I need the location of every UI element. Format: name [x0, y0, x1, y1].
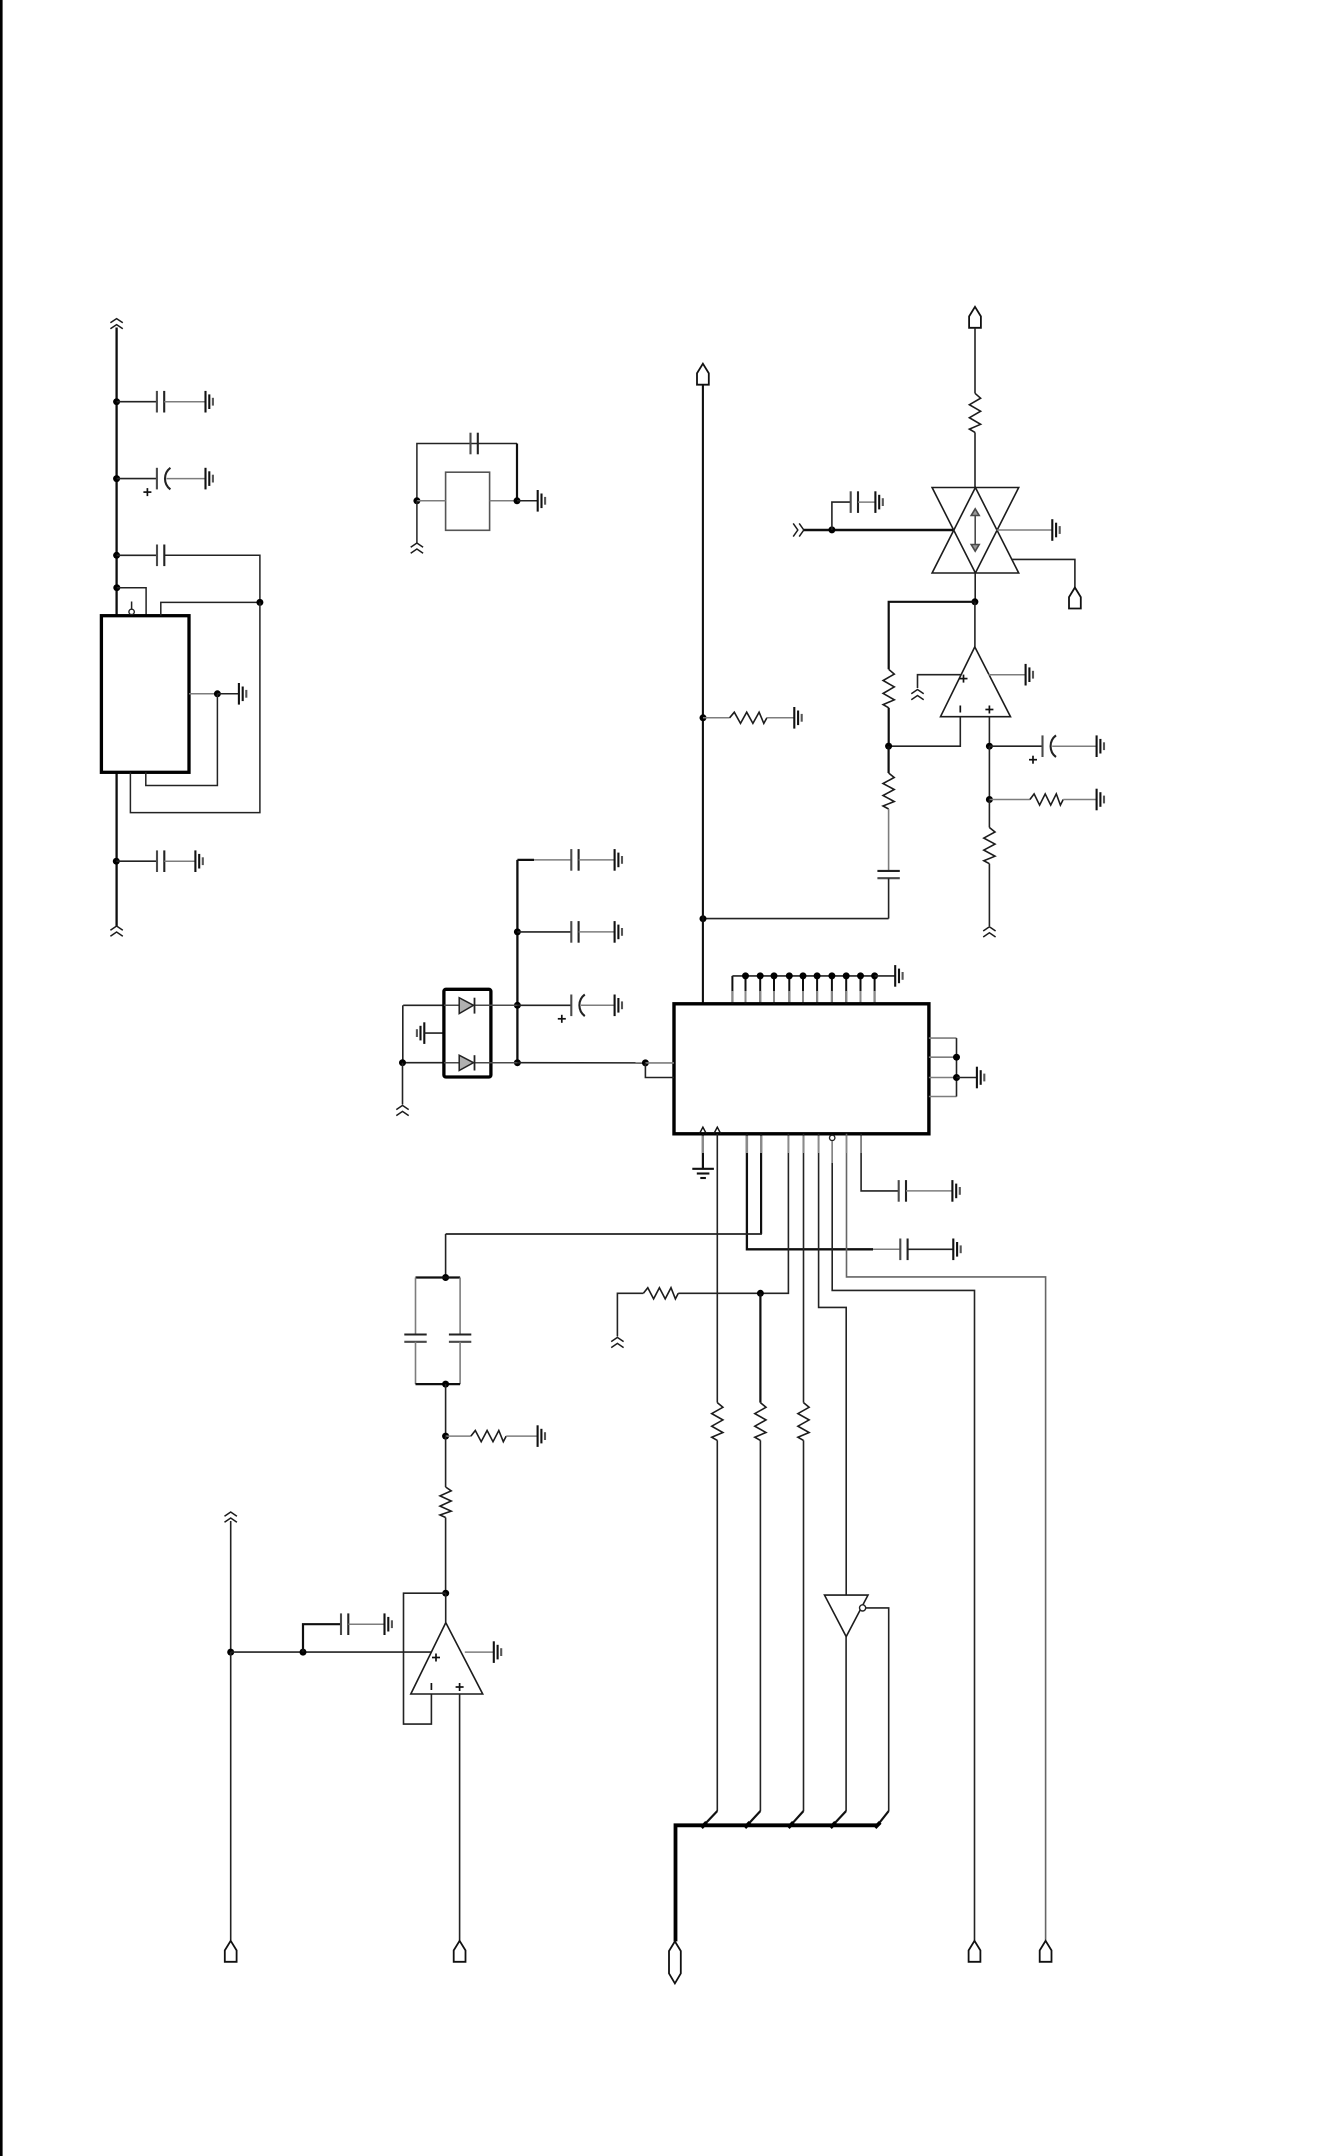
crystal X1: [446, 472, 490, 530]
off-page connector P9: [454, 1941, 466, 1962]
node L: [442, 1274, 449, 1281]
node I1: [514, 928, 521, 935]
off-page connector P1 (top): [969, 307, 981, 328]
label U3 inverting input: [430, 1683, 432, 1690]
capacitor C15: [341, 1613, 348, 1635]
wire node B loop to U1 bottom pin: [146, 694, 218, 786]
wire node R to C15: [303, 1624, 341, 1652]
node C: [971, 598, 978, 605]
ground (U4 top bus): [895, 965, 902, 987]
wire C2 to ground: [167, 478, 206, 480]
wire bus top corner: [517, 859, 534, 861]
suppressor RV1 (bidirectional TVS): [932, 488, 1019, 574]
wire U3 + input to off-page P9: [459, 1694, 461, 1941]
wire chevron to RV1: [804, 529, 953, 532]
wire C13 bottom rail: [416, 1383, 461, 1385]
wire node N to R11: [446, 1435, 471, 1437]
wire R4 to power arrow: [988, 864, 990, 926]
wire U4 pin to off-page P7: [847, 1134, 1046, 1941]
wire VCC rail vertical (lower): [115, 772, 117, 926]
wire U4 pin left B: [645, 1063, 674, 1078]
capacitor C1: [157, 391, 164, 413]
bus member joint: [704, 1811, 718, 1825]
ground (U4 right pins): [977, 1067, 984, 1089]
wire X1 left to power arrow: [416, 501, 418, 543]
wire to D1 anode (top): [403, 1004, 444, 1006]
diode D1a: [444, 998, 518, 1014]
resistor R8: [643, 1288, 678, 1299]
resistor R2: [883, 669, 894, 708]
dual diode D1 package: [444, 989, 491, 1077]
op-amp U2: [941, 647, 1011, 717]
U4 top pin bus to ground: [731, 976, 733, 1004]
wire down to C13 pair: [445, 1234, 447, 1278]
wire U1 output pin: [189, 693, 217, 695]
wire VCC rail vertical (upper): [115, 328, 117, 616]
wire U2 - input to node D: [889, 717, 961, 747]
ground (U4 GND pin): [692, 1169, 714, 1178]
node VCC/C4: [113, 858, 120, 865]
ground (U1): [239, 683, 246, 705]
resistor R6: [730, 712, 767, 723]
U4 clock input marks: [699, 1127, 720, 1134]
ground (C12): [953, 1239, 960, 1261]
wire mid bus vertical: [516, 860, 518, 1063]
capacitor C9: [571, 849, 578, 871]
wire to C1: [117, 401, 157, 403]
wire node A loop to U1 bottom pin: [130, 602, 260, 812]
resistor R7: [712, 1403, 723, 1441]
capacitor C10: [571, 921, 578, 943]
capacitor C11 (polarized): [571, 995, 585, 1017]
wire RV1 bottom to node C: [974, 573, 976, 602]
resistor R12: [440, 1487, 451, 1518]
arrow inside RV1: [971, 509, 979, 551]
resistor R5: [883, 773, 894, 809]
wire node E to C7: [989, 745, 1042, 747]
wire node E down: [988, 746, 990, 799]
node U4 left pins: [642, 1059, 649, 1066]
wire C3 to node A: [164, 555, 260, 602]
wire U4 pin left A: [645, 1062, 674, 1064]
power rail arrow (bottom of left rail): [110, 926, 122, 936]
power rail arrow VCC (top left): [110, 319, 122, 329]
node D: [885, 743, 892, 750]
ground (C10): [615, 921, 622, 943]
wire crystal feedback top: [417, 444, 517, 501]
power rail arrow (R8): [611, 1337, 623, 1347]
wire to C10: [517, 931, 571, 933]
IC U4 (main controller): [674, 1004, 929, 1134]
node K: [757, 1290, 764, 1297]
wire U4 pin to R8: [678, 1134, 788, 1294]
label U2 inverting input: [959, 706, 961, 713]
ground (C2): [206, 468, 213, 490]
wire C14 to ground: [906, 1190, 952, 1192]
ground (D1 common): [417, 1022, 424, 1044]
wire C8 down: [888, 878, 890, 918]
power rail arrow (U2 supply): [911, 690, 923, 700]
resistor R4: [984, 828, 995, 864]
wire C13 top rail: [416, 1276, 461, 1278]
resistor R1: [969, 393, 980, 432]
ground (U3): [494, 1641, 501, 1663]
wire node F to R4: [988, 800, 990, 828]
wire R9 to bus: [759, 1440, 761, 1811]
wire node M down: [445, 1384, 447, 1436]
node VCC/U1 feed: [113, 584, 120, 591]
capacitor C8: [877, 871, 899, 878]
wire C10 to ground: [579, 931, 615, 933]
ground (X1): [538, 490, 545, 512]
wire cap to crystal right node: [516, 444, 518, 501]
wire R1 to suppressor: [974, 432, 976, 487]
wire C6 to ground: [858, 501, 875, 503]
node X1 right: [514, 497, 521, 504]
wire to C3: [117, 554, 157, 556]
wire U4 pin to inverter U5 input: [819, 1134, 847, 1595]
node I2: [514, 1002, 521, 1009]
wire C9 to ground: [579, 859, 615, 861]
wire R10 to bus: [803, 1440, 805, 1811]
node X1 left: [413, 497, 420, 504]
wire node Q to off-page P8: [230, 1652, 232, 1941]
U4 right pin group: [929, 1037, 957, 1039]
bus member joint: [791, 1811, 804, 1825]
wire U4 GND pin: [702, 1134, 704, 1169]
wire P1 to R1: [974, 328, 976, 394]
page edge bar: [0, 0, 3, 2156]
off-page connector P8: [225, 1941, 237, 1962]
wire node K to R9: [759, 1293, 761, 1402]
wire R6 to ground: [767, 717, 794, 719]
node VCC/C2: [113, 475, 120, 482]
capacitor C14: [899, 1180, 906, 1202]
wire to C9: [534, 859, 571, 861]
wire U5 enable to bus: [866, 1608, 889, 1811]
wire C15 to ground: [348, 1623, 384, 1625]
capacitor C13b: [449, 1335, 471, 1342]
ground (C15): [385, 1613, 392, 1635]
wire P3 down to U4: [702, 385, 704, 1004]
wire R7 to bus: [716, 1440, 718, 1811]
ground (C1): [206, 391, 213, 413]
capacitor C6: [851, 491, 858, 513]
node RV1 input: [828, 526, 835, 533]
wire R3 to ground: [1063, 799, 1096, 801]
U4 bottom pin leads (gray): [702, 1136, 704, 1153]
bus member joint: [747, 1811, 760, 1825]
wire to C11: [517, 1004, 571, 1006]
off-page connector P6: [969, 1941, 981, 1962]
wire U4 pin down (thick): [760, 1134, 762, 1234]
power rail arrow (D1): [396, 1105, 408, 1115]
node A: [256, 599, 263, 606]
node Q: [227, 1649, 234, 1656]
ground (R11): [538, 1425, 545, 1447]
ground (C4): [195, 850, 202, 872]
wire node O to U3 apex: [445, 1593, 447, 1622]
ground (RV1): [1052, 519, 1059, 541]
wire node C to R2: [889, 602, 975, 670]
wire node I3 to U4: [517, 1062, 645, 1064]
node O (U3 output): [442, 1590, 449, 1597]
ground (C6): [875, 491, 882, 513]
wire C11 to ground: [581, 1004, 615, 1006]
wire to D1 anode (bottom): [403, 1062, 444, 1064]
node F: [986, 796, 993, 803]
wire U3 feedback loop: [404, 1593, 446, 1724]
wire R5 to C8: [888, 809, 890, 871]
node VCC/C1: [113, 398, 120, 405]
label U2 V+: [960, 675, 968, 683]
wire RV1 to off-page P2: [1012, 559, 1075, 587]
wire ground to D1 common pin: [424, 1032, 444, 1034]
resistor R10: [798, 1403, 809, 1441]
wire U4 pin to C14: [861, 1134, 899, 1191]
node R: [300, 1649, 307, 1656]
wire C1 to ground: [164, 401, 205, 403]
capacitor C7 (polarized): [1043, 735, 1057, 757]
capacitor C4: [157, 850, 164, 872]
wire power arrow down: [230, 1521, 232, 1652]
IC U1 (regulator): [101, 616, 189, 773]
wire VCC to U1 pin: [117, 588, 146, 616]
inverter U5: [825, 1595, 869, 1637]
wire node Q to U3 V+: [231, 1651, 432, 1653]
wire node H to R6: [703, 717, 730, 719]
wire X1 out: [490, 500, 517, 502]
node I3: [514, 1059, 521, 1066]
wire node to C6: [832, 502, 851, 530]
node G: [700, 915, 707, 922]
wire node C to op-amp U2 output: [974, 602, 976, 647]
wire node D down: [887, 746, 889, 773]
wire C7 to ground: [1052, 745, 1096, 747]
ground (C9): [615, 849, 622, 871]
bus terminal (off-page): [669, 1941, 681, 1983]
label U3 non-inverting input: [456, 1683, 464, 1691]
wire to ground (X1): [517, 500, 538, 502]
label U2 non-inverting input: [985, 706, 993, 714]
wire C4 to ground: [164, 860, 195, 862]
capacitor C12: [900, 1239, 907, 1261]
pin stub U1 enable (inverted): [131, 602, 133, 610]
wire node B to ground: [217, 693, 239, 695]
capacitor C13a: [404, 1335, 426, 1342]
wire left tie D1: [402, 1005, 404, 1062]
ground (R3): [1097, 789, 1104, 811]
ground (C7): [1097, 735, 1104, 757]
capacitor C2 (polarized): [157, 468, 171, 490]
power rail arrow (crystal): [411, 543, 423, 553]
capacitor C5 (across crystal): [471, 433, 478, 455]
wire V+ supply to U2: [918, 675, 962, 688]
off-page connector P7: [1040, 1941, 1052, 1962]
node N: [442, 1433, 449, 1440]
wire across to C13 group: [446, 1233, 762, 1235]
capacitor C3: [157, 545, 164, 567]
node M: [442, 1381, 449, 1388]
wire R8 to power arrow: [617, 1293, 643, 1336]
wire R11 to ground: [506, 1435, 537, 1437]
ground (U2): [1026, 664, 1033, 686]
wire node N to R12: [445, 1436, 447, 1487]
input chevron (to RV1): [793, 523, 804, 536]
U4 top pin leads (gray): [731, 991, 733, 1002]
wire R12 to U3 output: [445, 1518, 447, 1594]
bus member joint: [833, 1811, 846, 1825]
diode D1b: [444, 1055, 518, 1070]
bus member joint: [877, 1811, 888, 1825]
resistor R9: [755, 1403, 766, 1441]
off-page connector P2: [1069, 588, 1081, 609]
wire U2 V- to ground: [989, 674, 1026, 676]
wire U2 + input down: [988, 717, 990, 747]
power rail arrow (R4): [983, 927, 995, 937]
wire U5 output to bus: [845, 1637, 847, 1811]
wire node F to R3: [989, 799, 1030, 801]
wire to C2: [117, 478, 157, 480]
wire to C4: [116, 860, 157, 862]
resistor R3: [1030, 794, 1063, 805]
ground (C11): [615, 995, 622, 1017]
resistor R11: [471, 1431, 506, 1442]
node H: [700, 714, 707, 721]
wire U4 pin to C12: [747, 1134, 873, 1250]
wire RV1 right to ground: [997, 529, 1053, 531]
wire U4 pin to off-page P6: [832, 1141, 974, 1941]
wire R2 to node D: [888, 708, 890, 746]
off-page connector P3: [697, 364, 709, 385]
node J: [399, 1059, 406, 1066]
node VCC/C3: [113, 552, 120, 559]
label U3 V+: [432, 1654, 440, 1662]
wire into X1: [417, 500, 446, 502]
wire U4 pin to R10: [803, 1134, 805, 1403]
wire U3 V- to ground: [465, 1651, 494, 1653]
ground (R6): [794, 707, 801, 729]
wire C12 to ground: [908, 1248, 954, 1250]
U4 inverted output pin: [830, 1135, 835, 1140]
power rail arrow (bottom left): [225, 1512, 237, 1522]
wire U1 pin to node A: [161, 602, 260, 615]
node B: [214, 690, 221, 697]
op-amp U3: [411, 1623, 483, 1694]
wire bus trunk: [676, 1825, 878, 1941]
ground (C14): [952, 1180, 959, 1202]
node E: [986, 743, 993, 750]
wire node J to power arrow: [402, 1063, 404, 1105]
wire U4 pin to R7: [716, 1134, 718, 1403]
wire C8 to node G: [703, 918, 889, 920]
